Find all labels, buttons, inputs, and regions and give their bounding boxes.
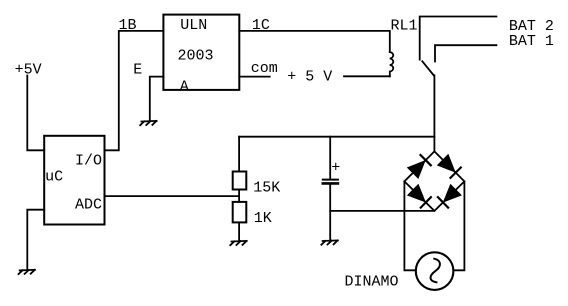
- wire switch pole down to bridge: [433, 75, 435, 151]
- wire bridge right to dynamo: [453, 181, 464, 270]
- svg-text:ADC: ADC: [75, 197, 102, 214]
- svg-text:A: A: [180, 78, 189, 95]
- wire E pin to ground: [150, 77, 164, 121]
- inductor RL1 coil: [390, 52, 393, 76]
- svg-text:RL1: RL1: [391, 18, 418, 35]
- svg-text:15K: 15K: [253, 179, 280, 196]
- svg-text:E: E: [133, 62, 142, 79]
- wire 1K to ground: [238, 222, 240, 241]
- diode bridge diamond: [404, 151, 464, 211]
- switch SW arm: [422, 61, 433, 75]
- wire rail to 15K: [238, 137, 240, 172]
- svg-text:1B: 1B: [119, 17, 137, 34]
- svg-text:DINAMO: DINAMO: [345, 273, 399, 290]
- svg-text:BAT 1: BAT 1: [509, 33, 554, 50]
- svg-text:+ 5 V: + 5 V: [287, 69, 332, 86]
- svg-text:com: com: [251, 60, 278, 77]
- svg-text:1K: 1K: [254, 210, 272, 227]
- wire BAT 1 contact: [435, 45, 496, 61]
- svg-text:2003: 2003: [178, 47, 214, 64]
- diode D2 top-right: [438, 155, 460, 177]
- resistor 1K: [233, 202, 247, 223]
- wire +5V stem: [27, 76, 44, 151]
- wire com stub: [239, 76, 269, 78]
- wire rail to capacitor: [329, 137, 331, 179]
- op-amp U1 ULN2003 box: [163, 15, 239, 90]
- svg-text:ULN: ULN: [180, 17, 207, 34]
- wire bridge bottom to capacitor leg: [330, 210, 434, 212]
- microcontroller uC box: [44, 136, 104, 225]
- diode D3 bottom-left: [409, 185, 431, 207]
- wire ADC to divider: [105, 195, 240, 197]
- svg-text:uC: uC: [45, 169, 63, 186]
- wire main +V rail: [239, 136, 434, 138]
- diode D4 bottom-right: [438, 185, 460, 207]
- wire uC left pin to ground: [27, 210, 44, 270]
- capacitor C1 plates: [323, 179, 338, 181]
- ground below capacitor: [321, 240, 337, 244]
- svg-text:I/O: I/O: [75, 152, 102, 169]
- resistor 15K: [233, 172, 247, 190]
- wire BAT 2 contact: [420, 17, 497, 60]
- ground below 1K: [230, 241, 246, 245]
- ground below E: [140, 121, 156, 125]
- ground below uC: [19, 270, 35, 274]
- svg-text:+: +: [331, 160, 340, 177]
- sine wave inside dynamo: [431, 259, 440, 283]
- diode D1 top-left: [408, 155, 430, 177]
- wire +5V to coil bottom: [344, 75, 390, 77]
- wire capacitor to ground: [329, 185, 331, 241]
- wire between resistors: [238, 190, 240, 202]
- generator DINAMO circle: [416, 252, 454, 290]
- wire I/O to 1B vertical: [105, 31, 164, 150]
- wire bridge left to dynamo: [404, 181, 415, 270]
- wire 1C to relay coil: [239, 31, 389, 52]
